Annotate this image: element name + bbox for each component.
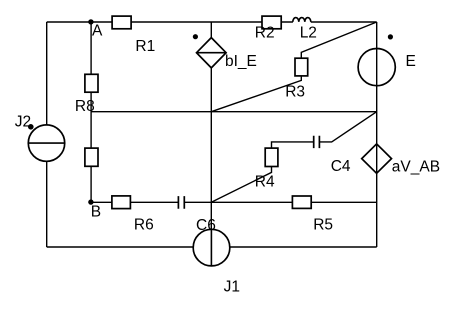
wire C4 to right junction diagonal [319,112,376,142]
svg-text:R5: R5 [313,216,333,233]
marker dot near J2 [28,124,34,130]
wire lower middle right of C6 [184,201,376,203]
resistor R3 [295,58,308,76]
dependent source bI_E diamond [197,38,227,68]
wire top right of L2 [311,21,377,23]
svg-text:R2: R2 [255,25,275,42]
marker dot near bI_E [193,34,198,39]
wire R4 top to C4 [272,142,314,148]
svg-text:J1: J1 [224,278,240,295]
resistor unlabeled lower left [85,148,98,166]
wire A-B vertical [90,22,92,202]
wire bottom left [47,246,194,248]
svg-text:C4: C4 [331,158,351,175]
wire diagonal corner to R3 top [301,22,376,58]
svg-text:R4: R4 [255,174,275,191]
capacitor C4 plates [314,136,320,148]
svg-text:J2: J2 [15,114,31,131]
wire left upper [46,22,48,125]
resistor R4 [265,148,278,166]
J1 diameter line [210,229,212,266]
svg-text:bI_E: bI_E [225,53,257,70]
svg-text:C6: C6 [196,217,216,234]
svg-text:R1: R1 [135,38,155,55]
svg-text:B: B [91,203,101,220]
svg-text:A: A [92,23,103,40]
node B dot [88,199,93,204]
resistor R8 [85,74,98,92]
capacitor C6 plates [178,196,184,209]
svg-text:R6: R6 [134,217,154,234]
resistor R6 [112,196,130,209]
source J2 circle [28,125,64,161]
wire top [47,21,293,23]
source J1 circle [193,229,230,266]
svg-text:aV_AB: aV_AB [392,159,440,176]
svg-text:E: E [406,53,416,70]
wire R3 bottom diagonal to middle junction [211,76,301,112]
bI_E diamond chord [197,52,227,54]
marker dot near E [388,34,393,39]
resistor R5 [292,196,311,208]
wire left lower [46,161,48,247]
wire lower middle left of C6 [91,201,178,203]
wire bottom right [230,246,377,248]
svg-text:L2: L2 [300,25,317,42]
resistor R2 [262,16,281,29]
node A dot [88,19,93,24]
inductor L2 coil [293,18,311,22]
wire diagonal B-wire to R4 bottom [211,167,271,203]
wire middle horizontal [91,111,377,113]
source E circle [358,49,395,86]
J2 diameter line [28,142,64,144]
wire right vertical [376,22,378,247]
resistor R1 [112,16,131,29]
svg-text:R8: R8 [75,98,95,115]
svg-text:R3: R3 [285,84,305,101]
wire central vertical [210,22,212,229]
dependent source aV_AB diamond [362,144,392,173]
